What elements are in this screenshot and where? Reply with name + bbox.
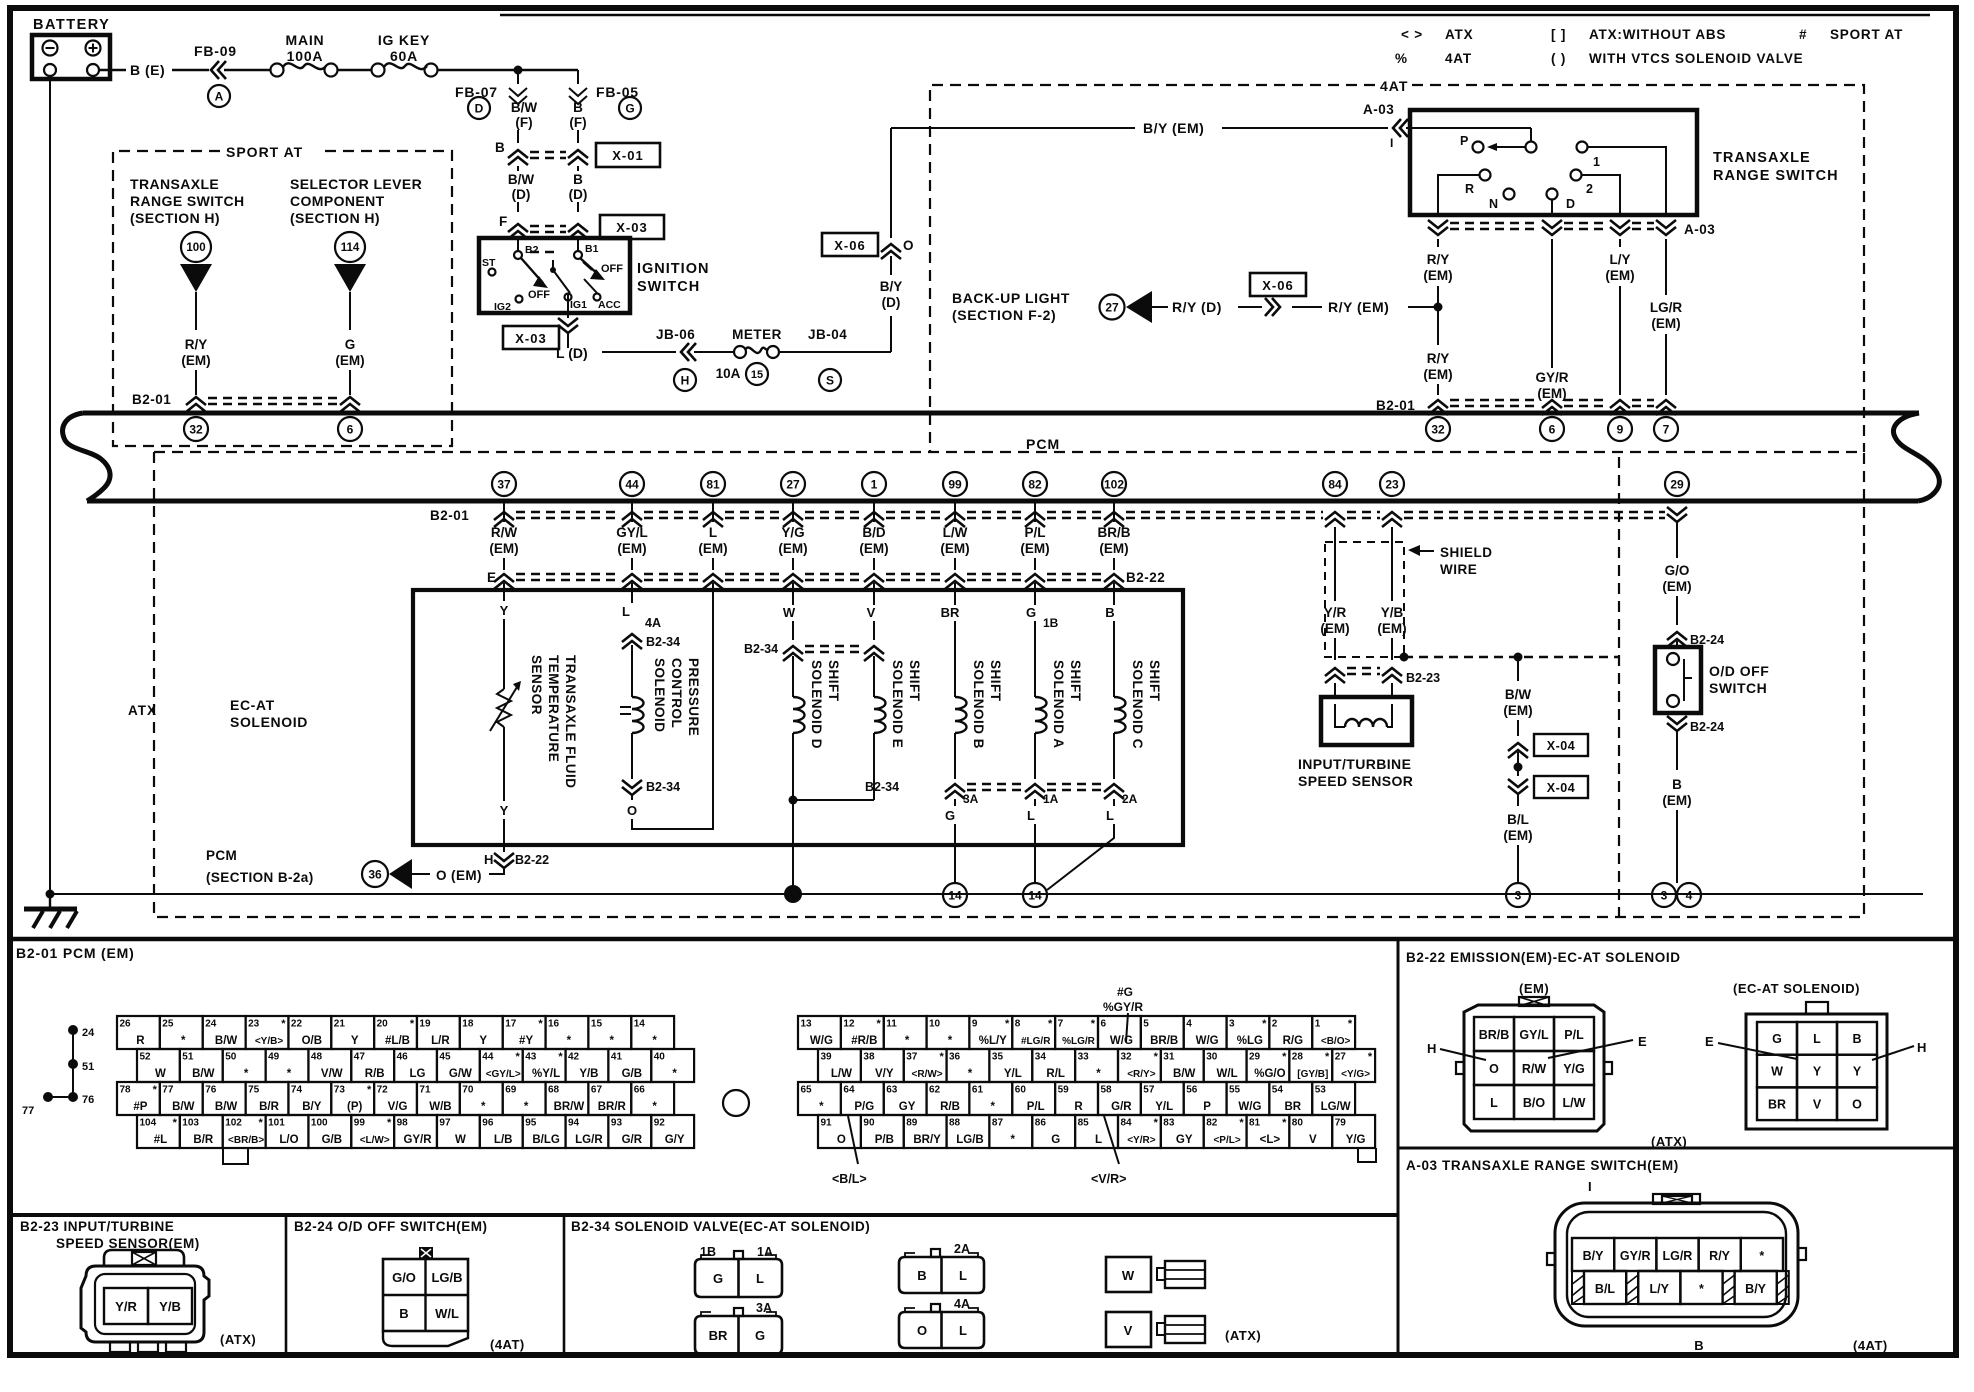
svg-text:*: *	[1011, 1134, 1016, 1146]
svg-text:73: 73	[334, 1085, 346, 1096]
svg-text:16: 16	[548, 1019, 560, 1030]
svg-text:88: 88	[949, 1118, 961, 1129]
svg-text:*: *	[567, 1035, 572, 1047]
svg-text:B: B	[573, 100, 583, 115]
svg-text:*: *	[367, 1084, 372, 1096]
svg-text:E: E	[1638, 1034, 1647, 1049]
pin 81 PCM	[701, 472, 725, 496]
svg-text:TRANSAXLE: TRANSAXLE	[1713, 150, 1811, 166]
svg-text:BATTERY: BATTERY	[33, 17, 110, 33]
svg-text:52: 52	[140, 1052, 152, 1063]
ground rail wire	[50, 893, 1923, 895]
svg-text:R/W: R/W	[491, 525, 518, 540]
svg-text:W: W	[455, 1134, 466, 1146]
svg-text:B/R: B/R	[193, 1134, 214, 1146]
svg-text:*: *	[1091, 1018, 1096, 1030]
svg-text:(EM): (EM)	[1099, 541, 1128, 556]
B2-22 EC-AT solenoid connector	[1705, 1002, 1926, 1129]
svg-text:51: 51	[82, 1061, 94, 1073]
svg-text:B/Y: B/Y	[302, 1101, 322, 1113]
svg-text:BR: BR	[709, 1328, 728, 1343]
connector B2-01 row left top	[132, 392, 360, 412]
svg-text:7: 7	[1058, 1019, 1064, 1030]
svg-text:*: *	[1239, 1117, 1244, 1129]
svg-text:3A: 3A	[963, 792, 979, 806]
svg-text:INPUT/TURBINE: INPUT/TURBINE	[1298, 756, 1411, 772]
svg-text:O/D OFF: O/D OFF	[1709, 663, 1769, 679]
svg-text:H: H	[1917, 1040, 1926, 1055]
wire BR/B (EM)	[1098, 503, 1131, 570]
svg-text:91: 91	[821, 1118, 833, 1129]
svg-text:1B: 1B	[1043, 616, 1059, 630]
svg-text:O: O	[1852, 1097, 1862, 1111]
svg-text:34: 34	[1035, 1052, 1047, 1063]
svg-text:L (D): L (D)	[556, 345, 588, 361]
svg-text:36: 36	[368, 867, 382, 881]
pin 23 PCM	[1380, 472, 1404, 496]
svg-text:RANGE SWITCH: RANGE SWITCH	[1713, 168, 1839, 184]
svg-text:23: 23	[248, 1019, 260, 1030]
svg-text:84: 84	[1121, 1118, 1133, 1129]
svg-text:[GY/B]: [GY/B]	[1297, 1069, 1328, 1080]
wire G/O (EM)	[1662, 507, 1691, 625]
svg-text:75: 75	[248, 1085, 260, 1096]
svg-text:4A: 4A	[645, 616, 661, 630]
bottom strip divider	[10, 1213, 1398, 1217]
svg-text:(4AT): (4AT)	[1853, 1338, 1888, 1353]
svg-text:79: 79	[1335, 1118, 1347, 1129]
fuse METER 10A	[716, 327, 782, 385]
svg-text:100: 100	[311, 1118, 328, 1129]
pin 3 circle right	[1652, 883, 1676, 907]
svg-text:SOLENOID: SOLENOID	[230, 714, 308, 730]
svg-text:SHIELD: SHIELD	[1440, 545, 1493, 560]
svg-text:(EM): (EM)	[1423, 268, 1452, 283]
svg-text:*: *	[1154, 1117, 1159, 1129]
svg-text:V: V	[1309, 1134, 1317, 1146]
pin 6 left	[338, 417, 362, 441]
svg-text:#: #	[1799, 27, 1807, 42]
svg-text:LG/W: LG/W	[1321, 1101, 1351, 1113]
svg-text:4AT: 4AT	[1445, 51, 1472, 66]
B2-23/B2-24 divider	[285, 1215, 288, 1355]
svg-text:BR/B: BR/B	[1479, 1028, 1510, 1042]
pin 29 PCM	[1665, 472, 1689, 496]
battery	[32, 17, 110, 79]
svg-text:FB-09: FB-09	[194, 43, 237, 59]
svg-text:G: G	[713, 1271, 723, 1286]
B2-24 O/D off switch connector	[383, 1247, 525, 1352]
svg-text:A-03: A-03	[1363, 102, 1394, 117]
svg-text:<Y/G>: <Y/G>	[1341, 1069, 1370, 1080]
svg-text:104: 104	[140, 1118, 157, 1129]
svg-text:<B/L>: <B/L>	[832, 1172, 867, 1186]
svg-text:BR: BR	[941, 605, 960, 620]
svg-text:L: L	[959, 1268, 967, 1283]
svg-text:86: 86	[1035, 1118, 1047, 1129]
svg-text:*: *	[281, 1018, 286, 1030]
svg-text:*: *	[1282, 1051, 1287, 1063]
header B2-01 PCM(EM)	[16, 945, 135, 961]
svg-text:A-03: A-03	[1684, 222, 1715, 237]
svg-text:B/W: B/W	[215, 1035, 238, 1047]
shield drain dashed wire	[1404, 653, 1619, 662]
svg-text:PCM: PCM	[1026, 436, 1060, 452]
svg-text:72: 72	[377, 1085, 389, 1096]
connector X-03 row	[499, 214, 664, 252]
svg-text:2A: 2A	[954, 1242, 970, 1256]
svg-text:B2-23 INPUT/TURBINE: B2-23 INPUT/TURBINE	[20, 1219, 174, 1234]
svg-text:BR: BR	[1284, 1101, 1301, 1113]
svg-text:B: B	[1105, 605, 1114, 620]
wire B/W (F)	[511, 100, 538, 143]
svg-text:64: 64	[843, 1085, 855, 1096]
svg-text:B/W: B/W	[1505, 687, 1532, 702]
svg-text:30: 30	[1206, 1052, 1218, 1063]
svg-text:CONTROL: CONTROL	[669, 658, 684, 728]
svg-text:V/G: V/G	[388, 1101, 408, 1113]
svg-text:Y: Y	[479, 1035, 487, 1047]
svg-text:B: B	[573, 172, 583, 187]
callout B/L	[832, 1116, 867, 1186]
svg-text:2: 2	[1272, 1019, 1278, 1030]
svg-text:BR/R: BR/R	[598, 1101, 627, 1113]
svg-text:%: %	[1395, 51, 1408, 66]
pin 9	[1608, 417, 1632, 441]
svg-text:GY/R: GY/R	[1535, 370, 1568, 385]
ATX dashed box	[128, 452, 1864, 917]
svg-text:SHIFT: SHIFT	[907, 660, 922, 702]
svg-text:*: *	[173, 1117, 178, 1129]
svg-text:70: 70	[462, 1085, 474, 1096]
svg-text:1A: 1A	[1043, 792, 1059, 806]
svg-text:84: 84	[1328, 477, 1342, 491]
svg-text:X-03: X-03	[616, 220, 647, 235]
shift solenoid B	[941, 583, 1003, 779]
wire battery to ground	[46, 79, 55, 899]
svg-text:L/W: L/W	[943, 525, 968, 540]
svg-text:EC-AT: EC-AT	[230, 697, 275, 713]
svg-text:SHIFT: SHIFT	[826, 660, 841, 702]
fuse IG KEY 60A	[372, 32, 579, 77]
B2-24/B2-34 divider	[563, 1215, 566, 1355]
svg-text:15: 15	[751, 369, 763, 381]
PCM bus top line	[83, 411, 1919, 416]
svg-text:*: *	[258, 1117, 263, 1129]
svg-text:< >: < >	[1401, 27, 1423, 42]
svg-text:B/D: B/D	[862, 525, 886, 540]
pin 14 circle a	[943, 883, 967, 907]
connector B2-01 row right top	[1376, 398, 1676, 415]
svg-text:51: 51	[182, 1052, 194, 1063]
wire G (EM) sport	[335, 337, 364, 395]
svg-text:TRANSAXLE FLUID: TRANSAXLE FLUID	[563, 655, 578, 789]
svg-text:BR/W: BR/W	[554, 1101, 585, 1113]
B2-01 pin guide dots	[22, 1025, 95, 1117]
fusible link FB-07	[455, 70, 527, 104]
svg-text:(EM): (EM)	[1662, 579, 1691, 594]
svg-text:B1: B1	[585, 243, 599, 255]
svg-text:JB-06: JB-06	[656, 327, 695, 342]
svg-text:L/Y: L/Y	[1649, 1282, 1669, 1296]
svg-text:63: 63	[886, 1085, 898, 1096]
svg-text:A-03 TRANSAXLE RANGE SWITCH(EM: A-03 TRANSAXLE RANGE SWITCH(EM)	[1406, 1158, 1679, 1173]
wire H to B2-22 below EC-AT box	[484, 845, 549, 874]
svg-text:O (EM): O (EM)	[436, 868, 482, 883]
svg-text:Y/G: Y/G	[781, 525, 804, 540]
svg-text:29: 29	[1670, 477, 1684, 491]
svg-text:RANGE SWITCH: RANGE SWITCH	[130, 193, 244, 209]
svg-text:G: G	[755, 1328, 765, 1343]
svg-text:IG1: IG1	[570, 299, 587, 311]
svg-text:GY: GY	[1176, 1134, 1193, 1146]
svg-text:%L/Y: %L/Y	[979, 1035, 1007, 1047]
svg-text:R/Y (EM): R/Y (EM)	[1328, 299, 1389, 315]
svg-text:F: F	[499, 214, 507, 229]
svg-text:*: *	[1005, 1018, 1010, 1030]
svg-text:<BR/B>: <BR/B>	[228, 1135, 264, 1146]
pin 37 PCM	[492, 472, 516, 496]
svg-text:<R/W>: <R/W>	[912, 1069, 943, 1080]
wire B/D (EM)	[859, 503, 888, 570]
svg-text:R/B: R/B	[365, 1068, 385, 1080]
wire L/W (EM)	[940, 503, 969, 570]
pin 44 PCM	[620, 472, 644, 496]
pin 99 PCM	[943, 472, 967, 496]
svg-text:O: O	[1489, 1062, 1499, 1076]
callout #G %GY/R	[1103, 985, 1143, 1042]
svg-text:(F): (F)	[515, 115, 532, 130]
svg-text:99: 99	[354, 1118, 366, 1129]
svg-text:77: 77	[162, 1085, 174, 1096]
svg-text:R/Y: R/Y	[1427, 252, 1450, 267]
svg-text:LG/R: LG/R	[1662, 1249, 1692, 1263]
svg-text:*: *	[287, 1068, 292, 1080]
svg-text:L/B: L/B	[494, 1134, 513, 1146]
svg-text:89: 89	[906, 1118, 918, 1129]
svg-text:B/Y: B/Y	[1745, 1282, 1767, 1296]
svg-text:MAIN: MAIN	[286, 32, 325, 48]
svg-text:*: *	[181, 1035, 186, 1047]
svg-text:4A: 4A	[954, 1297, 970, 1311]
svg-text:50: 50	[225, 1052, 237, 1063]
B2-34 connector 4A	[899, 1297, 984, 1348]
wire R/Y (D)	[1172, 299, 1262, 315]
svg-text:BR: BR	[1768, 1097, 1786, 1111]
svg-text:*: *	[905, 1035, 910, 1047]
wire B/Y (EM)	[891, 120, 1388, 136]
wire B/Y (D) riser	[880, 256, 903, 352]
svg-text:82: 82	[1028, 477, 1042, 491]
svg-text:23: 23	[1385, 477, 1399, 491]
svg-text:(EM): (EM)	[1503, 703, 1532, 718]
svg-text:PCM: PCM	[206, 848, 237, 863]
svg-text:W/G: W/G	[810, 1035, 833, 1047]
svg-text:W/L: W/L	[435, 1306, 459, 1321]
svg-text:97: 97	[439, 1118, 451, 1129]
svg-text:W/G: W/G	[1196, 1035, 1219, 1047]
svg-text:Y: Y	[500, 803, 509, 818]
wire R/Y (EM) horizontal	[1328, 299, 1438, 315]
svg-text:P/L: P/L	[1027, 1101, 1045, 1113]
svg-text:B/O: B/O	[1523, 1096, 1546, 1110]
svg-text:8: 8	[1015, 1019, 1021, 1030]
svg-text:(F): (F)	[569, 115, 586, 130]
pin 102 PCM	[1102, 472, 1126, 496]
svg-text:W: W	[1771, 1065, 1783, 1079]
back-up light label	[952, 290, 1070, 323]
svg-text:14: 14	[634, 1019, 646, 1030]
section divider horizontal	[10, 937, 1956, 942]
svg-text:*: *	[1759, 1249, 1764, 1263]
B2-22 ATX label	[1651, 1134, 1687, 1149]
svg-text:3: 3	[1229, 1019, 1235, 1030]
svg-text:B2-34: B2-34	[646, 635, 680, 649]
svg-text:(D): (D)	[512, 187, 531, 202]
header A-03 TRANSAXLE RANGE SWITCH(EM)	[1406, 1158, 1679, 1173]
svg-text:SOLENOID C: SOLENOID C	[1130, 660, 1145, 749]
svg-text:101: 101	[268, 1118, 285, 1129]
svg-text:O: O	[837, 1134, 846, 1146]
wire R/Y (EM) from switch	[1423, 239, 1452, 395]
svg-text:SOLENOID: SOLENOID	[652, 658, 667, 733]
svg-text:66: 66	[634, 1085, 646, 1096]
svg-text:B (E): B (E)	[130, 62, 165, 78]
svg-text:(SECTION B-2a): (SECTION B-2a)	[206, 870, 314, 885]
svg-text:2: 2	[1586, 182, 1593, 196]
svg-text:10: 10	[929, 1019, 941, 1030]
wire LG/R (EM) from switch	[1650, 239, 1682, 395]
svg-text:47: 47	[354, 1052, 366, 1063]
svg-text:4AT: 4AT	[1380, 78, 1408, 94]
svg-text:14: 14	[948, 888, 962, 902]
svg-text:R/Y: R/Y	[1709, 1249, 1731, 1263]
A-03 transaxle range switch connector	[1547, 1179, 1888, 1353]
B2-22/A-03 divider	[1398, 1147, 1956, 1150]
svg-text:(EM): (EM)	[1605, 268, 1634, 283]
B2-34 V terminal	[1106, 1312, 1261, 1347]
svg-text:R: R	[1465, 182, 1474, 196]
svg-text:X-01: X-01	[612, 148, 643, 163]
svg-text:BR/Y: BR/Y	[913, 1134, 941, 1146]
svg-text:2A: 2A	[1122, 792, 1138, 806]
connector X-06 back-up	[1250, 273, 1322, 316]
svg-text:25: 25	[162, 1019, 174, 1030]
transaxle range switch box	[1410, 110, 1839, 215]
pin 3 circle left	[1506, 883, 1530, 907]
connector JB-04	[779, 327, 891, 391]
svg-text:22: 22	[291, 1019, 303, 1030]
wire R/Y (EM) sport	[181, 337, 210, 395]
svg-text:87: 87	[992, 1118, 1004, 1129]
svg-text:Y/L: Y/L	[1155, 1101, 1173, 1113]
svg-text:W: W	[155, 1068, 166, 1080]
svg-text:Y/B: Y/B	[579, 1068, 598, 1080]
connector X-01 row	[495, 140, 660, 167]
pin 84 PCM	[1323, 472, 1347, 496]
B2-01 grid bottom-left tab	[223, 1148, 248, 1164]
selector lever component label	[290, 176, 422, 226]
svg-text:(EM): (EM)	[940, 541, 969, 556]
ground	[24, 894, 77, 928]
svg-text:GY: GY	[899, 1101, 916, 1113]
connector JB-06	[656, 327, 733, 391]
wire B(E) battery feed	[99, 62, 209, 78]
svg-text:L/O: L/O	[279, 1134, 298, 1146]
wire Y/G (EM)	[778, 503, 807, 570]
svg-text:(SECTION H): (SECTION H)	[130, 210, 220, 226]
svg-text:B2-22: B2-22	[1126, 570, 1165, 585]
svg-text:P/B: P/B	[875, 1134, 894, 1146]
svg-text:LG: LG	[410, 1068, 426, 1080]
svg-text:9: 9	[1617, 422, 1624, 436]
B2-34 W terminal	[1106, 1257, 1205, 1292]
svg-text:B2-01: B2-01	[132, 392, 171, 407]
svg-text:3: 3	[1515, 888, 1522, 902]
svg-text:*: *	[153, 1084, 158, 1096]
svg-text:B: B	[1694, 1338, 1703, 1353]
svg-text:(EM): (EM)	[1423, 367, 1452, 382]
svg-text:BR/B: BR/B	[1098, 525, 1131, 540]
wire P/L (EM)	[1020, 503, 1049, 570]
connector B2-34 label near shift solenoid D	[744, 642, 884, 661]
svg-text:A: A	[215, 89, 224, 103]
shift solenoid E	[793, 583, 922, 800]
svg-text:98: 98	[397, 1118, 409, 1129]
svg-text:SOLENOID D: SOLENOID D	[809, 660, 824, 749]
svg-text:114: 114	[341, 242, 360, 254]
svg-text:V: V	[867, 605, 876, 620]
svg-text:#L: #L	[154, 1134, 167, 1146]
wire solenoid B to pin 14	[954, 799, 956, 883]
svg-text:V/W: V/W	[321, 1068, 343, 1080]
svg-text:(EM): (EM)	[1503, 828, 1532, 843]
svg-text:92: 92	[654, 1118, 666, 1129]
svg-text:P: P	[1460, 134, 1468, 148]
svg-text:H: H	[681, 373, 690, 387]
svg-text:1A: 1A	[757, 1245, 773, 1259]
svg-text:B2-23: B2-23	[1406, 671, 1440, 685]
svg-text:27: 27	[1105, 300, 1119, 314]
svg-text:1: 1	[1593, 155, 1600, 169]
header B2-24	[294, 1219, 488, 1234]
svg-text:G: G	[1026, 605, 1036, 620]
connector X-04 lower	[1508, 776, 1588, 806]
svg-text:102: 102	[1104, 477, 1124, 491]
svg-text:O: O	[917, 1323, 927, 1338]
svg-text:81: 81	[706, 477, 720, 491]
svg-text:W/L: W/L	[1217, 1068, 1238, 1080]
wire R/W (EM)	[489, 503, 518, 570]
svg-text:Y/G: Y/G	[1346, 1134, 1366, 1146]
PCM bus right curl	[1893, 413, 1939, 501]
svg-text:19: 19	[419, 1019, 431, 1030]
svg-text:B/R: B/R	[259, 1101, 280, 1113]
svg-text:L: L	[1490, 1096, 1498, 1110]
svg-text:61: 61	[972, 1085, 984, 1096]
4AT dashed box	[930, 78, 1864, 452]
svg-text:L: L	[1106, 808, 1114, 823]
svg-text:Y/R: Y/R	[115, 1299, 137, 1314]
svg-text:(EM): (EM)	[859, 541, 888, 556]
svg-text:B2-34: B2-34	[744, 642, 778, 656]
svg-text:35: 35	[992, 1052, 1004, 1063]
svg-text:SOLENOID E: SOLENOID E	[890, 660, 905, 748]
pin 32 left	[184, 417, 208, 441]
svg-text:W: W	[1122, 1268, 1135, 1283]
svg-text:ACC: ACC	[598, 299, 621, 311]
svg-text:R/B: R/B	[940, 1101, 960, 1113]
